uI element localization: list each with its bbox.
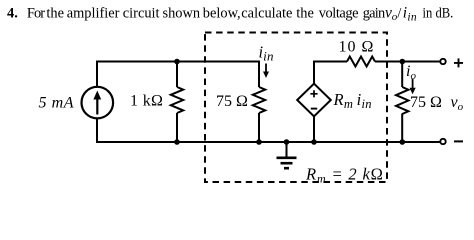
resistor R 1k zigzag [171,87,183,113]
i_in arrow shaft [265,64,267,75]
wire: output 75 ohm leads [401,62,403,143]
ground bar 3 [284,167,289,170]
i_o arrow head [410,88,416,94]
dashed amplifier box [205,33,387,183]
i_o arrow shaft [412,79,414,91]
ground bar 2 [281,162,293,165]
plus terminal label [454,58,463,67]
resistor 10 ohm zigzag [347,57,375,67]
minus terminal label [454,140,463,142]
wire: 1k resistor leads [176,62,178,143]
current source arrow head [93,91,101,100]
dependent source diamond Rm*iin [297,84,331,117]
junction at bottom of output 75 ohm [400,139,406,145]
resistor 75 ohm output zigzag [396,87,408,114]
ground stem [286,142,288,158]
svg-text:4.: 4. [7,6,18,22]
current source I1 5mA circle [82,87,114,119]
output terminal plus node [440,59,445,64]
minus mark inside dependent source [311,108,317,110]
ground bar 1 [277,157,297,160]
current source arrow shaft [96,98,98,115]
junction at bottom of input 75 ohm [256,139,262,145]
resistor 75 ohm input zigzag [253,87,265,113]
svg-text:1 kΩ: 1 kΩ [130,93,163,110]
i_in arrow head [263,72,269,79]
svg-text:Rm = 2 kΩ: Rm = 2 kΩ [305,164,384,185]
output terminal minus node [440,139,445,144]
wire: top-right rail to terminal [375,61,440,63]
junction at bottom of dependent source [311,139,317,145]
wire: bottom rail [97,119,440,143]
plus mark inside dependent source [310,90,317,97]
wire: input 75 ohm lower lead [258,113,260,142]
svg-text:75 Ω: 75 Ω [216,93,248,110]
svg-text:5 mA: 5 mA [39,95,75,112]
svg-text:10 Ω: 10 Ω [339,38,375,55]
junction at ground stem [284,139,290,145]
svg-text:in dB.: in dB. [423,6,454,22]
junction at top of R1 1k [174,59,180,65]
wire: top-left rail [97,62,259,88]
junction at bottom of R1 1k [174,139,180,145]
svg-text:75 Ω: 75 Ω [410,94,442,111]
wire: dependent source column [314,62,347,143]
svg-text:Fortheamplifiercircuitshownbel: Fortheamplifiercircuitshownbelow,calcula… [27,6,385,22]
junction at top of output 75 ohm [400,59,406,65]
